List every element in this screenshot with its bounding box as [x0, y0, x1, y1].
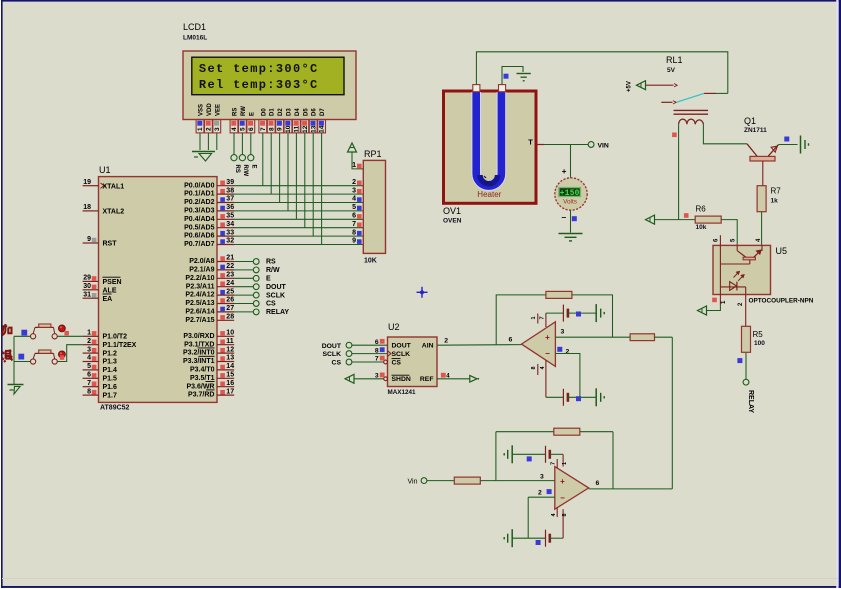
svg-text:SHDN: SHDN — [392, 376, 411, 383]
svg-text:D4: D4 — [295, 108, 301, 116]
svg-text:6: 6 — [375, 339, 379, 346]
svg-text:28: 28 — [226, 314, 234, 321]
svg-text:VSS: VSS — [199, 104, 205, 116]
svg-text:−: − — [545, 349, 550, 358]
svg-text:Set temp:300°C: Set temp:300°C — [199, 62, 319, 76]
svg-text:5V: 5V — [667, 67, 676, 74]
svg-text:1: 1 — [562, 462, 568, 465]
svg-text:3: 3 — [352, 187, 356, 194]
svg-text:P1.3: P1.3 — [103, 359, 118, 366]
svg-text:R7: R7 — [771, 187, 782, 196]
svg-text:E: E — [266, 276, 271, 283]
svg-text:9: 9 — [352, 238, 356, 245]
svg-text:P0.7/AD7: P0.7/AD7 — [184, 241, 214, 248]
svg-text:21: 21 — [226, 255, 234, 262]
svg-text:5: 5 — [352, 204, 356, 211]
svg-text:6: 6 — [248, 127, 255, 131]
svg-text:P3.3/INT1: P3.3/INT1 — [183, 358, 215, 365]
svg-text:Q1: Q1 — [744, 116, 756, 126]
svg-text:P1.1/T2EX: P1.1/T2EX — [103, 342, 137, 349]
svg-text:+: + — [562, 167, 567, 176]
svg-text:P3.2/INT0: P3.2/INT0 — [183, 350, 215, 357]
svg-text:XTAL2: XTAL2 — [103, 209, 125, 216]
svg-text:T: T — [528, 138, 533, 147]
svg-text:10: 10 — [285, 125, 292, 133]
svg-text:2: 2 — [566, 349, 570, 356]
svg-text:4: 4 — [352, 196, 356, 203]
svg-text:8: 8 — [531, 366, 537, 369]
svg-text:+5V: +5V — [627, 81, 633, 92]
svg-text:7: 7 — [551, 462, 557, 465]
svg-text:P1.4: P1.4 — [103, 367, 118, 374]
svg-text:P2.7/A15: P2.7/A15 — [185, 317, 214, 324]
svg-text:AT89C52: AT89C52 — [100, 405, 130, 412]
svg-text:32: 32 — [226, 238, 234, 245]
svg-text:P0.6/AD6: P0.6/AD6 — [184, 233, 214, 240]
svg-text:P0.5/AD5: P0.5/AD5 — [184, 224, 214, 231]
svg-text:3: 3 — [561, 329, 565, 336]
svg-text:27: 27 — [226, 305, 234, 312]
svg-text:11: 11 — [226, 338, 234, 345]
svg-text:Volts: Volts — [563, 199, 577, 206]
svg-text:1: 1 — [352, 162, 356, 169]
svg-text:D3: D3 — [287, 108, 293, 116]
svg-text:CS: CS — [332, 360, 342, 367]
svg-text:SCLK: SCLK — [392, 351, 411, 358]
svg-text:10: 10 — [226, 330, 234, 337]
svg-text:LCD1: LCD1 — [183, 22, 206, 32]
svg-text:P0.2/AD2: P0.2/AD2 — [184, 199, 214, 206]
svg-text:CS: CS — [266, 301, 276, 308]
svg-text:39: 39 — [226, 179, 234, 186]
svg-text:1: 1 — [197, 127, 204, 131]
svg-text:11: 11 — [294, 125, 301, 132]
svg-text:P3.5/T1: P3.5/T1 — [190, 375, 215, 382]
svg-text:18: 18 — [83, 204, 91, 211]
svg-text:D2: D2 — [278, 108, 284, 116]
svg-text:P3.0/RXD: P3.0/RXD — [183, 333, 214, 340]
svg-text:33: 33 — [226, 229, 234, 236]
svg-text:2: 2 — [444, 337, 448, 344]
svg-text:19: 19 — [83, 179, 91, 186]
svg-text:P0.0/AD0: P0.0/AD0 — [184, 182, 214, 189]
svg-text:R5: R5 — [753, 330, 764, 339]
svg-text:10K: 10K — [364, 258, 377, 265]
svg-text:6: 6 — [596, 480, 600, 487]
svg-text:8: 8 — [375, 347, 379, 354]
svg-text:P3.6/WR: P3.6/WR — [186, 383, 214, 390]
svg-text:P2.4/A12: P2.4/A12 — [185, 292, 214, 299]
svg-text:9: 9 — [277, 127, 284, 131]
svg-text:P2.2/A10: P2.2/A10 — [185, 275, 214, 282]
svg-text:3: 3 — [375, 373, 379, 380]
svg-text:RS: RS — [266, 259, 276, 266]
svg-text:1k: 1k — [771, 198, 779, 205]
svg-text:7: 7 — [87, 380, 91, 387]
svg-text:–: – — [562, 212, 567, 222]
svg-text:D5: D5 — [303, 108, 309, 116]
svg-text:D7: D7 — [320, 108, 326, 116]
svg-text:PSEN: PSEN — [103, 279, 122, 286]
svg-text:OVEN: OVEN — [443, 218, 462, 225]
svg-text:SCLK: SCLK — [322, 351, 341, 358]
svg-text:U5: U5 — [776, 246, 788, 256]
svg-text:4: 4 — [87, 355, 91, 362]
svg-text:R/W: R/W — [266, 267, 280, 274]
svg-text:D1: D1 — [270, 108, 276, 116]
svg-text:RS: RS — [233, 108, 239, 116]
svg-text:P3.4/T0: P3.4/T0 — [190, 367, 215, 374]
svg-text:34: 34 — [226, 221, 234, 228]
svg-text:VIN: VIN — [598, 142, 609, 149]
svg-text:Vin: Vin — [408, 478, 418, 485]
svg-text:8: 8 — [87, 388, 91, 395]
svg-text:SCLK: SCLK — [266, 292, 285, 299]
svg-text:P2.5/A13: P2.5/A13 — [185, 300, 214, 307]
svg-text:R6: R6 — [696, 205, 707, 214]
svg-text:37: 37 — [226, 196, 234, 203]
svg-text:RS: RS — [234, 165, 240, 173]
svg-text:3: 3 — [540, 474, 544, 481]
svg-text:3: 3 — [214, 127, 221, 131]
svg-text:DOUT: DOUT — [266, 284, 287, 291]
svg-text:100: 100 — [754, 340, 765, 347]
svg-text:RST: RST — [103, 241, 118, 248]
svg-text:25: 25 — [226, 288, 234, 295]
svg-text:P3.1/TXD: P3.1/TXD — [184, 341, 214, 348]
svg-text:OPTOCOUPLER-NPN: OPTOCOUPLER-NPN — [749, 298, 814, 305]
svg-text:6: 6 — [87, 372, 91, 379]
svg-text:P2.3/A11: P2.3/A11 — [186, 283, 215, 290]
svg-text:P1.7: P1.7 — [103, 392, 118, 399]
svg-text:2: 2 — [206, 127, 213, 131]
svg-text:5: 5 — [240, 127, 247, 131]
svg-text:AIN: AIN — [422, 343, 434, 350]
svg-text:DOUT: DOUT — [392, 343, 412, 350]
svg-text:8: 8 — [562, 513, 568, 516]
svg-text:7: 7 — [375, 356, 379, 363]
svg-text:7: 7 — [352, 221, 356, 228]
svg-text:ALE: ALE — [103, 288, 117, 295]
svg-text:9: 9 — [87, 236, 91, 243]
svg-text:31: 31 — [83, 291, 91, 298]
svg-text:EA: EA — [103, 296, 113, 303]
svg-text:7: 7 — [260, 127, 267, 131]
svg-text:13: 13 — [310, 125, 317, 133]
svg-text:LM016L: LM016L — [183, 35, 207, 42]
svg-text:RW: RW — [241, 106, 247, 116]
svg-text:4: 4 — [231, 127, 238, 131]
svg-text:2: 2 — [87, 338, 91, 345]
svg-text:16: 16 — [226, 380, 234, 387]
svg-text:RELAY: RELAY — [266, 309, 289, 316]
svg-text:15: 15 — [226, 372, 234, 379]
svg-text:Rel temp:303°C: Rel temp:303°C — [199, 78, 319, 92]
svg-text:36: 36 — [226, 204, 234, 211]
svg-text:5: 5 — [87, 363, 91, 370]
svg-text:17: 17 — [226, 388, 234, 395]
svg-text:+: + — [545, 333, 550, 342]
svg-text:6: 6 — [352, 213, 356, 220]
svg-text:RL1: RL1 — [666, 55, 683, 65]
svg-text:OV1: OV1 — [443, 206, 461, 216]
svg-text:DOUT: DOUT — [322, 343, 342, 350]
svg-text:10k: 10k — [696, 224, 707, 231]
svg-text:REF: REF — [420, 376, 434, 383]
svg-text:12: 12 — [302, 125, 309, 133]
svg-text:ZN1711: ZN1711 — [744, 127, 767, 134]
svg-text:29: 29 — [83, 275, 91, 282]
svg-text:3: 3 — [87, 346, 91, 353]
svg-text:2: 2 — [352, 179, 356, 186]
svg-text:P0.3/AD3: P0.3/AD3 — [184, 208, 214, 215]
svg-text:30: 30 — [83, 283, 91, 290]
svg-text:14: 14 — [226, 363, 234, 370]
svg-text:RP1: RP1 — [364, 149, 382, 159]
svg-text:−: − — [560, 494, 565, 503]
svg-text:P0.4/AD4: P0.4/AD4 — [184, 216, 214, 223]
svg-text:R/W: R/W — [242, 165, 248, 177]
svg-text:P3.7/RD: P3.7/RD — [188, 392, 214, 399]
svg-text:24: 24 — [226, 280, 234, 287]
svg-text:8: 8 — [268, 127, 275, 131]
svg-text:26: 26 — [226, 297, 234, 304]
svg-text:P1.2: P1.2 — [103, 350, 118, 357]
svg-text:E: E — [251, 165, 257, 169]
svg-text:D0: D0 — [261, 108, 267, 116]
svg-text:Heater: Heater — [477, 190, 501, 199]
svg-text:P2.0/A8: P2.0/A8 — [189, 258, 214, 265]
svg-text:VDD: VDD — [207, 103, 213, 116]
svg-text:RELAY: RELAY — [747, 390, 754, 413]
svg-text:7: 7 — [540, 316, 546, 319]
svg-text:+: + — [560, 477, 565, 486]
svg-text:P0.1/AD1: P0.1/AD1 — [184, 191, 214, 198]
svg-text:6: 6 — [509, 336, 513, 343]
svg-text:+150: +150 — [560, 190, 580, 198]
svg-text:38: 38 — [226, 187, 234, 194]
svg-text:XTAL1: XTAL1 — [103, 183, 125, 190]
svg-text:P2.6/A14: P2.6/A14 — [185, 309, 214, 316]
svg-text:22: 22 — [226, 263, 234, 270]
svg-text:MAX1241: MAX1241 — [388, 389, 416, 396]
svg-text:U1: U1 — [99, 165, 111, 175]
svg-text:1: 1 — [87, 330, 91, 337]
svg-text:23: 23 — [226, 272, 234, 279]
svg-text:35: 35 — [226, 213, 234, 220]
svg-text:12: 12 — [226, 346, 234, 353]
svg-text:8: 8 — [352, 229, 356, 236]
svg-text:P1.0/T2: P1.0/T2 — [103, 334, 128, 341]
svg-text:D6: D6 — [312, 108, 318, 116]
svg-text:2: 2 — [538, 490, 542, 497]
svg-text:VEE: VEE — [215, 104, 221, 116]
svg-text:P2.1/A9: P2.1/A9 — [189, 267, 214, 274]
svg-text:13: 13 — [226, 355, 234, 362]
svg-text:14: 14 — [319, 125, 326, 133]
svg-text:P1.5: P1.5 — [103, 376, 118, 383]
svg-text:CS: CS — [392, 359, 402, 366]
svg-text:1: 1 — [531, 316, 537, 319]
svg-text:P1.6: P1.6 — [103, 384, 118, 391]
svg-text:U2: U2 — [388, 322, 400, 332]
svg-text:E: E — [249, 112, 255, 116]
